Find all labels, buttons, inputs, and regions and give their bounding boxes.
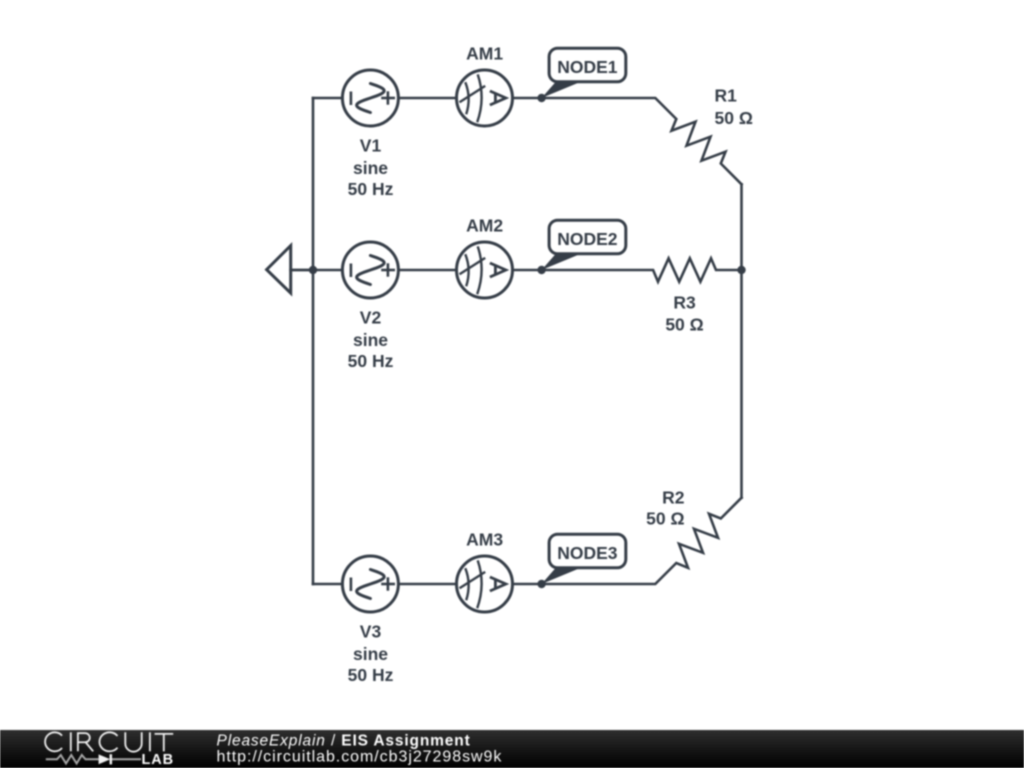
svg-text:R3: R3 — [673, 293, 696, 313]
svg-text:NODE3: NODE3 — [557, 543, 618, 563]
svg-text:sine: sine — [353, 330, 388, 350]
svg-text:R2: R2 — [662, 488, 685, 508]
svg-text:sine: sine — [353, 158, 388, 178]
svg-text:sine: sine — [353, 644, 388, 664]
svg-text:50 Ω: 50 Ω — [665, 315, 703, 335]
svg-text:http://circuitlab.com/cb3j2729: http://circuitlab.com/cb3j27298sw9k — [217, 749, 503, 766]
svg-text:50 Ω: 50 Ω — [715, 108, 753, 128]
svg-text:50 Ω: 50 Ω — [646, 509, 684, 529]
svg-text:V2: V2 — [360, 308, 382, 328]
svg-text:NODE1: NODE1 — [557, 57, 618, 77]
svg-text:AM2: AM2 — [466, 216, 503, 236]
svg-text:50 Hz: 50 Hz — [348, 179, 394, 199]
svg-text:LAB: LAB — [142, 752, 175, 768]
svg-text:50 Hz: 50 Hz — [348, 351, 394, 371]
svg-text:AM1: AM1 — [466, 44, 503, 64]
svg-text:V1: V1 — [360, 136, 382, 156]
svg-text:V3: V3 — [360, 622, 382, 642]
svg-text:50 Hz: 50 Hz — [348, 665, 394, 685]
svg-text:NODE2: NODE2 — [557, 229, 618, 249]
svg-text:AM3: AM3 — [466, 530, 503, 550]
svg-text:R1: R1 — [715, 86, 738, 106]
svg-text:PleaseExplain / EIS Assignment: PleaseExplain / EIS Assignment — [217, 733, 471, 750]
